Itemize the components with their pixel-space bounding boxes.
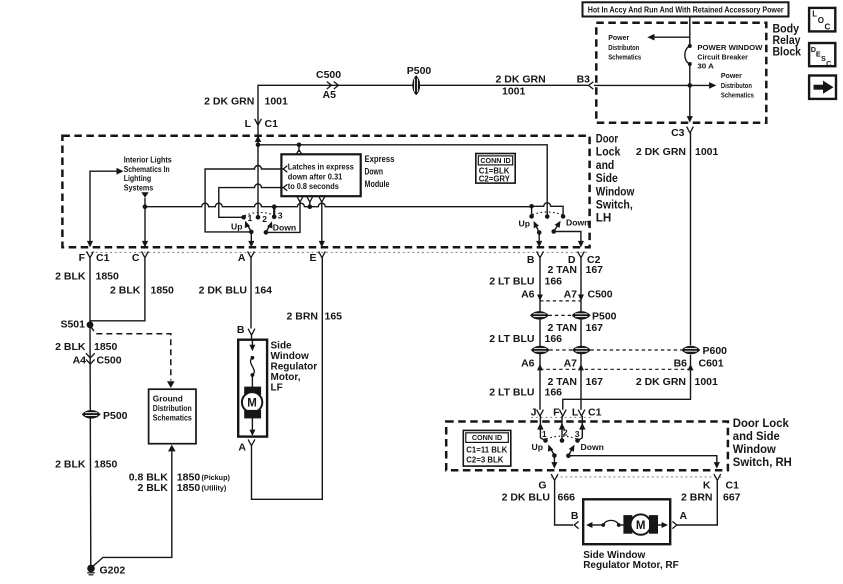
label 2 DK GRN 1001 (below C3) bbox=[636, 146, 719, 158]
arrow out of ground distribution box bottom bbox=[168, 445, 176, 452]
svg-text:167: 167 bbox=[586, 264, 604, 276]
node: bus junction to contact 3 bbox=[272, 204, 277, 209]
svg-text:2 DK GRN: 2 DK GRN bbox=[204, 96, 254, 108]
label 2 TAN 167 (row 2) bbox=[547, 322, 603, 334]
svg-text:2: 2 bbox=[262, 214, 267, 224]
RH switch contact jogs bbox=[540, 438, 582, 440]
svg-text:Systems: Systems bbox=[124, 182, 154, 192]
svg-text:1850: 1850 bbox=[94, 459, 118, 471]
svg-text:C1=11 BLK: C1=11 BLK bbox=[466, 446, 507, 455]
svg-text:E: E bbox=[309, 252, 316, 264]
label 2 DK BLU 164 bbox=[199, 285, 273, 297]
svg-text:Down: Down bbox=[581, 442, 604, 452]
RH switch position arc bbox=[546, 436, 576, 439]
junction node: B3 wire to breaker output bbox=[688, 83, 693, 88]
svg-text:Power: Power bbox=[721, 71, 742, 80]
svg-text:1001: 1001 bbox=[265, 96, 289, 108]
label A4 C500 bbox=[73, 354, 122, 366]
wire: breaker output down to C3 bbox=[689, 64, 691, 119]
svg-text:1850: 1850 bbox=[94, 341, 118, 353]
svg-text:LF: LF bbox=[271, 383, 283, 394]
switch 2 up pivot bbox=[537, 230, 542, 235]
wire: 2 DK GRN 1001 from C3 down to P600 bbox=[690, 133, 692, 345]
svg-text:2 DK BLU: 2 DK BLU bbox=[199, 285, 247, 297]
wire: module lower-left terminal to contact 1 bbox=[219, 184, 283, 217]
svg-text:Window: Window bbox=[271, 351, 309, 362]
grommet P500 left (LT BLU) bbox=[531, 312, 548, 319]
svg-text:Hot In Accy And Run And With R: Hot In Accy And Run And With Retained Ac… bbox=[588, 5, 785, 15]
svg-text:B: B bbox=[237, 324, 245, 336]
label C500 / A5 bbox=[316, 69, 341, 101]
connector face line G-K (gray dotted) bbox=[551, 476, 721, 478]
svg-text:C: C bbox=[826, 59, 832, 68]
connector chevron at B3 bbox=[589, 82, 594, 89]
wire: bus to switch 2 outer contacts bbox=[532, 203, 564, 217]
grommet P500 (left) bbox=[83, 411, 100, 418]
door lock and side window switch RH dashed box bbox=[446, 422, 728, 471]
svg-text:167: 167 bbox=[586, 376, 604, 388]
motor LF internal bottom arrow bbox=[249, 418, 255, 436]
svg-text:P500: P500 bbox=[407, 65, 432, 77]
label 2 DK BLU 666 bbox=[502, 492, 576, 504]
side window regulator motor LF box bbox=[238, 340, 267, 437]
connector D of C2 bbox=[578, 251, 585, 257]
svg-text:C: C bbox=[132, 252, 140, 264]
switch 2 Up blade bbox=[534, 221, 540, 233]
svg-text:G: G bbox=[538, 479, 546, 491]
svg-text:(Pickup): (Pickup) bbox=[202, 473, 231, 482]
svg-text:C1: C1 bbox=[726, 479, 740, 491]
label Body Relay Block bbox=[773, 22, 802, 59]
label L C1 bbox=[245, 118, 279, 130]
svg-text:A6: A6 bbox=[521, 357, 535, 369]
svg-text:Power: Power bbox=[608, 33, 629, 42]
switch 1 down pivot bbox=[264, 230, 269, 235]
connector row C500 pins A6 A7: arrows bbox=[537, 295, 584, 301]
svg-text:Switch, RH: Switch, RH bbox=[733, 455, 792, 469]
label 2 LT BLU 166 (row 3) bbox=[489, 386, 562, 398]
svg-text:2 BLK: 2 BLK bbox=[55, 270, 86, 282]
node: power junction at top of module feed bbox=[256, 143, 261, 148]
svg-text:C1: C1 bbox=[265, 118, 279, 130]
switch 1 up pivot bbox=[249, 230, 254, 235]
label 2 BLK 1850 (C wire) bbox=[110, 285, 174, 297]
label Door Lock and Side Window Switch, LH bbox=[596, 132, 635, 225]
svg-text:Regulator: Regulator bbox=[271, 362, 318, 373]
svg-text:Regulator Motor, RF: Regulator Motor, RF bbox=[583, 560, 679, 571]
grommet P500 on top wire bbox=[413, 76, 420, 94]
switch 1 contact 2 bbox=[256, 215, 261, 220]
svg-text:1850: 1850 bbox=[96, 270, 120, 282]
svg-text:167: 167 bbox=[586, 322, 604, 334]
svg-text:Ground: Ground bbox=[153, 393, 183, 403]
node: bus junction to module bottom-2 bbox=[308, 204, 313, 209]
svg-text:to 0.8 seconds: to 0.8 seconds bbox=[288, 181, 339, 191]
RH switch contact 1 bbox=[543, 438, 548, 443]
svg-text:A5: A5 bbox=[323, 89, 337, 101]
arrow at RH box bottom for G wire bbox=[551, 462, 557, 469]
motor LF brush block bottom bbox=[245, 410, 261, 418]
label Door Lock and Side Window Switch, RH bbox=[733, 416, 792, 469]
switch 1 Down blade bbox=[266, 221, 273, 232]
label Power Distributon Schematics (lower) bbox=[721, 71, 754, 99]
ground bus wire across switch LH bbox=[145, 203, 532, 206]
svg-text:1: 1 bbox=[542, 429, 547, 439]
RH Down blade bbox=[568, 445, 574, 456]
arrow to power distribution schematics (right) bbox=[709, 82, 716, 89]
dashed link between P500 grommets bbox=[549, 314, 573, 316]
connector row C601 pins A6 A7 B6: arrows bbox=[537, 364, 694, 370]
arrow at box bottom for E wire bbox=[319, 241, 325, 248]
svg-text:2 BLK: 2 BLK bbox=[55, 459, 86, 471]
wire: switch 2 down pivot to connector D bbox=[554, 232, 581, 244]
svg-text:A7: A7 bbox=[564, 357, 578, 369]
wire: 2 LT BLU 166 from B down to connector J bbox=[539, 258, 541, 410]
svg-text:1001: 1001 bbox=[695, 146, 719, 158]
switch 1 Up blade bbox=[245, 221, 252, 232]
svg-text:C500: C500 bbox=[316, 69, 341, 81]
wire: module bottom-3 to connector E bbox=[321, 202, 323, 244]
wire: ground distribution to G202 bbox=[92, 451, 172, 567]
wire: switch 2 up pivot to connector B bbox=[538, 233, 540, 244]
svg-text:S501: S501 bbox=[60, 319, 85, 331]
svg-text:Schematics: Schematics bbox=[608, 53, 641, 62]
wire: bus stub to contact 3 bbox=[273, 207, 275, 217]
nav icon box right-arrow bbox=[809, 76, 836, 99]
RH down pivot bbox=[566, 453, 571, 458]
svg-text:Lock: Lock bbox=[596, 145, 621, 159]
switch 1 contact 3 bbox=[272, 215, 277, 220]
svg-text:2 BRN: 2 BRN bbox=[286, 310, 318, 322]
switch 2 position arc bbox=[532, 212, 562, 215]
switch 2 Down blade bbox=[554, 221, 561, 232]
connector E of C1 bbox=[319, 251, 326, 257]
motor RF internal right arrow bbox=[658, 522, 669, 528]
label 2 BRN 165 bbox=[286, 310, 342, 322]
connector B chevron of motor RF bbox=[574, 521, 578, 528]
svg-text:P500: P500 bbox=[592, 310, 617, 322]
wire: 2 DK BLU 666 from G to motor RF B bbox=[555, 480, 573, 525]
wire: S501 down through A4/C500 and P500 to G202 bbox=[89, 325, 92, 567]
svg-text:Express: Express bbox=[365, 154, 395, 165]
grommet P600 bbox=[682, 346, 699, 353]
svg-text:166: 166 bbox=[545, 333, 563, 345]
svg-text:M: M bbox=[247, 398, 257, 410]
module bottom terminal forks bbox=[297, 197, 325, 203]
module left terminal chevron (upper) bbox=[283, 166, 287, 172]
svg-text:Side: Side bbox=[596, 171, 618, 185]
wire: 2 BLK 1850 from C to S501 bbox=[90, 258, 145, 321]
grommet P500 right (TAN) bbox=[573, 312, 590, 319]
node: ground bus junction at C wire bbox=[143, 204, 148, 209]
svg-text:166: 166 bbox=[545, 275, 563, 287]
svg-text:C601: C601 bbox=[699, 357, 724, 369]
side window regulator motor RF box bbox=[583, 499, 670, 544]
switch 1 contact 1 bbox=[241, 215, 246, 220]
svg-text:C1: C1 bbox=[96, 252, 110, 264]
label POWER WINDOW Circuit Breaker 30 A bbox=[697, 43, 763, 71]
labels A6 A7 C500 bbox=[521, 289, 613, 301]
svg-text:Motor,: Motor, bbox=[271, 372, 301, 383]
label Latches in express down after 0.31 to 0.8 seconds bbox=[288, 162, 354, 191]
grommet left (row 2) bbox=[532, 346, 549, 353]
labels J F L C1 (RH) bbox=[531, 406, 602, 418]
wire to RF brushes bbox=[619, 524, 624, 526]
label 2 LT BLU 166 (row 1) bbox=[489, 275, 562, 287]
arrow from interior lights down to ground bus bbox=[141, 192, 148, 198]
connector face line C500 (dashed) bbox=[540, 300, 581, 302]
svg-text:J: J bbox=[531, 406, 537, 418]
labels 1 2 3 bbox=[248, 211, 283, 224]
wire: 2 DK GRN 1001 from L/C1 up and right to B3 bbox=[258, 85, 588, 128]
svg-text:L: L bbox=[245, 118, 252, 130]
circuit breaker symbol 30A bbox=[685, 44, 692, 66]
switch 2 down pivot bbox=[551, 229, 556, 234]
svg-text:30 A: 30 A bbox=[697, 62, 714, 71]
svg-text:C1: C1 bbox=[588, 406, 602, 418]
wire arrow to power distribution schematics (upper left) bbox=[647, 34, 690, 41]
connector K of C1 bbox=[714, 474, 721, 480]
svg-text:Distributon: Distributon bbox=[608, 43, 639, 52]
module top terminal fork bbox=[296, 150, 302, 155]
svg-text:Down: Down bbox=[273, 223, 296, 233]
wire: up pivot down to connector A bbox=[250, 232, 252, 244]
svg-text:166: 166 bbox=[545, 386, 563, 398]
label 2 BRN 667 bbox=[681, 492, 741, 504]
wire: feed from hot bus into breaker bbox=[689, 17, 691, 47]
switch 1 position arc bbox=[245, 212, 274, 215]
svg-text:Down: Down bbox=[566, 218, 589, 228]
svg-text:(Utility): (Utility) bbox=[202, 483, 227, 492]
dashed links to P600 bbox=[550, 349, 682, 351]
svg-text:Switch,: Switch, bbox=[596, 198, 633, 212]
svg-text:Latches in express: Latches in express bbox=[288, 162, 354, 172]
svg-text:Circuit Breaker: Circuit Breaker bbox=[697, 53, 748, 62]
labels 1 2 3 (RH) bbox=[542, 428, 580, 440]
entry arrows into RH switch J F L bbox=[537, 416, 585, 441]
svg-text:C3: C3 bbox=[671, 127, 685, 139]
label Side Window Regulator Motor, RF bbox=[583, 550, 679, 571]
svg-text:B: B bbox=[527, 254, 535, 266]
label Side Window Regulator Motor, LF bbox=[271, 341, 318, 394]
connector A of motor LF bbox=[248, 439, 255, 445]
svg-text:K: K bbox=[703, 479, 711, 491]
svg-text:M: M bbox=[636, 520, 646, 532]
splice S501 bbox=[87, 321, 94, 328]
label 2 DK GRN 1001 (top left) bbox=[204, 96, 288, 108]
arrow at box bottom for F wire bbox=[87, 241, 93, 248]
svg-text:2 DK GRN: 2 DK GRN bbox=[636, 146, 686, 158]
svg-text:1850: 1850 bbox=[151, 285, 175, 297]
svg-text:B6: B6 bbox=[674, 357, 688, 369]
labels A6 A7 B6 C601 bbox=[521, 357, 724, 369]
wire: interior lights branch down to connector C bbox=[144, 198, 146, 244]
svg-text:2 LT BLU: 2 LT BLU bbox=[489, 275, 534, 287]
svg-text:L: L bbox=[812, 10, 817, 19]
svg-text:C500: C500 bbox=[97, 354, 122, 366]
RH Up blade bbox=[548, 444, 555, 455]
label 2 LT BLU 166 (row 2) bbox=[489, 333, 562, 345]
svg-text:P500: P500 bbox=[103, 410, 128, 422]
svg-text:164: 164 bbox=[255, 285, 273, 297]
label 2 DK GRN 1001 (top, right of P500) bbox=[496, 74, 546, 98]
wire: branch down into module top terminal bbox=[298, 145, 300, 152]
label Power Distributon Schematics (upper) bbox=[608, 33, 641, 61]
motor RF thermal breaker bbox=[601, 520, 620, 527]
svg-text:Window: Window bbox=[733, 442, 777, 456]
dashed wire from S501 to ground distribution bbox=[91, 326, 171, 381]
wire: connector F up to interior lights arrow bbox=[90, 171, 117, 244]
motor LF thermal breaker bbox=[250, 356, 254, 377]
label 2 BLK 1850 (lower left) bbox=[55, 459, 117, 471]
connector C3 bbox=[687, 127, 694, 133]
connector B of C2 bbox=[537, 251, 544, 257]
connector face line at RH C1 (gray dotted) bbox=[531, 416, 591, 418]
wire: P600 through C601 to connector F (RH) bbox=[563, 355, 691, 410]
wire: motor RF A to connector K (2 BRN 667) bbox=[677, 480, 718, 525]
label 2 TAN 167 (row 1) bbox=[547, 264, 603, 276]
motor RF internal left arrow bbox=[586, 522, 603, 528]
svg-text:Schematics: Schematics bbox=[153, 412, 192, 422]
wire B3 into body relay block bbox=[594, 84, 711, 86]
connector C of C1 bbox=[142, 251, 149, 257]
svg-text:and Side: and Side bbox=[733, 429, 780, 443]
wire: RH down pivot to connector K bbox=[568, 456, 716, 465]
connector B of motor LF bbox=[248, 329, 255, 335]
svg-text:O: O bbox=[818, 16, 824, 25]
CONN ID box (LH) bbox=[476, 154, 515, 184]
svg-text:2 BLK: 2 BLK bbox=[137, 482, 168, 494]
svg-text:P600: P600 bbox=[703, 345, 728, 357]
connector A chevron of motor RF bbox=[672, 521, 676, 528]
svg-text:Side: Side bbox=[271, 341, 293, 352]
wire: power vertical to switch contact 2 bbox=[257, 145, 259, 217]
svg-text:Window: Window bbox=[596, 184, 635, 198]
svg-text:667: 667 bbox=[723, 492, 741, 504]
svg-text:Schematics: Schematics bbox=[721, 91, 754, 100]
svg-text:1001: 1001 bbox=[695, 376, 719, 388]
svg-text:Module: Module bbox=[365, 179, 390, 190]
connector A of C1 bbox=[248, 251, 255, 257]
svg-text:2 LT BLU: 2 LT BLU bbox=[489, 333, 534, 345]
switch 2 contact middle bbox=[545, 214, 550, 219]
grommet right (row 2) bbox=[573, 346, 590, 353]
svg-text:1850: 1850 bbox=[177, 482, 201, 494]
arrow at box bottom for B wire bbox=[536, 241, 542, 248]
connector face line C601 (dashed) bbox=[540, 368, 691, 370]
svg-text:165: 165 bbox=[325, 310, 343, 322]
arrow at box bottom for D wire bbox=[578, 241, 584, 248]
svg-text:2 DK GRN: 2 DK GRN bbox=[636, 376, 686, 388]
ground distribution schematics box bbox=[149, 389, 196, 444]
motor RF brush block right bbox=[650, 516, 658, 534]
inline connector C500 pin A5 on top wire bbox=[327, 82, 339, 89]
node: branch to express down module input bbox=[297, 143, 302, 148]
wire: 2 TAN 167 from D down to connector L bbox=[580, 258, 582, 410]
svg-text:down after 0.31: down after 0.31 bbox=[288, 171, 343, 181]
svg-text:and: and bbox=[596, 158, 615, 172]
arrow at box bottom for C wire bbox=[142, 241, 148, 248]
svg-text:C2=3 BLK: C2=3 BLK bbox=[466, 455, 503, 464]
connector F of C1 (RH) bbox=[559, 410, 566, 416]
wire: motor LF A to connector E (2 BRN 165) bbox=[252, 258, 323, 500]
label 2 DK GRN 1001 (row 3) bbox=[636, 376, 718, 388]
svg-text:2 LT BLU: 2 LT BLU bbox=[489, 386, 534, 398]
svg-text:1001: 1001 bbox=[502, 86, 526, 98]
door lock and side window switch LH dashed box bbox=[62, 136, 589, 247]
svg-text:CONN ID: CONN ID bbox=[472, 433, 502, 442]
label 0.8 BLK 1850 (Pickup) bbox=[129, 472, 231, 484]
label Interior Lights Schematics In Lighting Systems bbox=[124, 155, 172, 193]
svg-text:C500: C500 bbox=[588, 289, 613, 301]
wire entry arrow from L/C1 into box bbox=[255, 129, 261, 146]
svg-text:A: A bbox=[680, 510, 688, 522]
svg-text:Up: Up bbox=[231, 222, 242, 232]
svg-text:Down: Down bbox=[365, 166, 384, 177]
motor RF brush block left bbox=[624, 516, 632, 534]
svg-text:Distribution: Distribution bbox=[153, 403, 192, 413]
express down module box bbox=[281, 154, 360, 196]
module left terminal chevron (lower) bbox=[283, 184, 287, 190]
svg-text:CONN ID: CONN ID bbox=[480, 156, 510, 165]
svg-text:3: 3 bbox=[278, 211, 283, 221]
nav icon box LOC bbox=[809, 8, 835, 32]
label 2 BLK 1850 (Utility) bbox=[137, 482, 226, 494]
svg-text:L: L bbox=[572, 406, 579, 418]
arrow into ground distribution box bbox=[167, 381, 175, 388]
svg-text:2 BLK: 2 BLK bbox=[110, 285, 141, 297]
switch 2 contact right bbox=[561, 214, 566, 219]
svg-text:Door: Door bbox=[596, 132, 619, 146]
wire: module bottom-2 to ground bus bbox=[309, 202, 311, 207]
svg-text:Distributon: Distributon bbox=[721, 81, 752, 90]
CONN ID box (RH) bbox=[463, 430, 511, 466]
svg-text:F: F bbox=[553, 406, 560, 418]
svg-text:Up: Up bbox=[519, 219, 530, 229]
arrow into interior lights label bbox=[117, 168, 124, 175]
svg-text:LH: LH bbox=[596, 211, 612, 225]
RH switch contact 2 bbox=[560, 438, 565, 443]
motor LF brush block top bbox=[245, 387, 261, 394]
label 2 BLK 1850 (F wire) bbox=[55, 270, 119, 282]
wire: module bottom-1 to Down pivot bbox=[266, 202, 300, 232]
svg-text:Block: Block bbox=[773, 45, 802, 59]
ground G202 bbox=[87, 565, 95, 575]
switch 2 (LH) bus junction node bbox=[529, 204, 534, 209]
wire: RH up pivot to connector G bbox=[553, 456, 555, 465]
nav icon box DESC bbox=[809, 43, 835, 68]
RH switch contact 3 bbox=[575, 438, 580, 443]
inline connector C500 pin A4 bbox=[86, 353, 95, 364]
svg-text:A: A bbox=[238, 441, 246, 453]
label D C2 bbox=[568, 254, 601, 266]
title box: Hot In Accy And Run And With Retained Accessory Power bbox=[583, 2, 789, 16]
wire: module upper-left terminal to Up pivot bbox=[205, 166, 283, 232]
wire: top feed to express module and right switch bbox=[258, 145, 547, 217]
motor LF armature circle M bbox=[242, 392, 262, 412]
arrow at box bottom for A wire bbox=[248, 241, 254, 248]
svg-text:B: B bbox=[571, 510, 579, 522]
svg-text:F: F bbox=[79, 252, 86, 264]
label 2 TAN 167 (row 3) bbox=[547, 376, 603, 388]
svg-text:C: C bbox=[825, 23, 831, 32]
body relay block dashed box bbox=[596, 23, 766, 123]
label F C1 bbox=[79, 252, 110, 264]
svg-text:3: 3 bbox=[575, 429, 580, 439]
svg-text:2 BRN: 2 BRN bbox=[681, 492, 713, 504]
label Express Down Module bbox=[365, 154, 395, 190]
wire to motor brushes bbox=[251, 375, 253, 387]
